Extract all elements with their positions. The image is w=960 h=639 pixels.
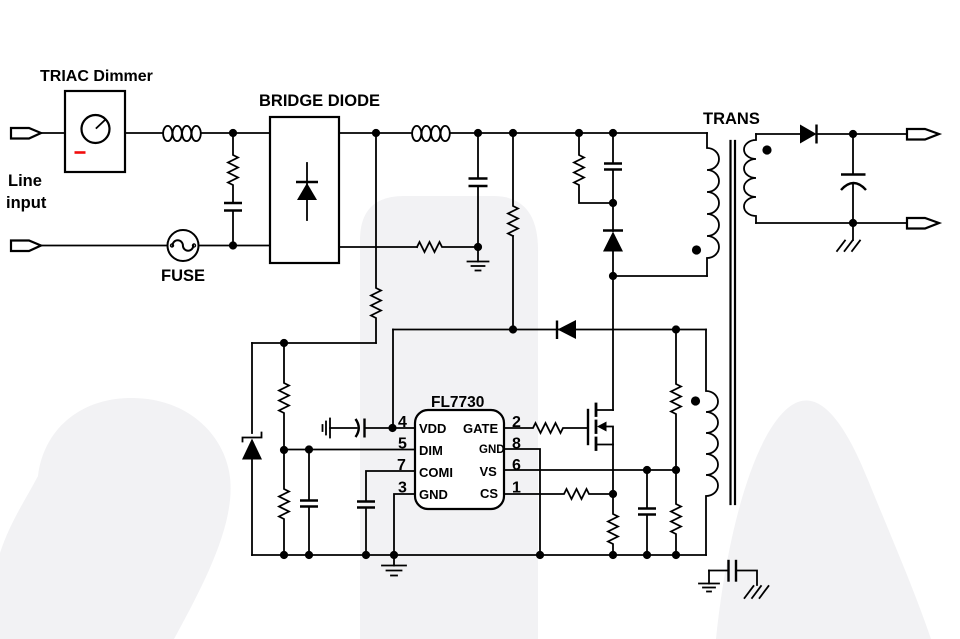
svg-text:Line: Line — [8, 172, 42, 190]
node X-cap top — [229, 129, 237, 137]
resistor source sense — [608, 494, 618, 555]
op-amp U1 FL7730 box — [415, 410, 504, 509]
node source CS — [609, 490, 617, 498]
connector output bottom — [907, 218, 939, 229]
capacitor dim — [308, 450, 310, 501]
svg-text:CS: CS — [480, 486, 498, 501]
transformer primary winding — [707, 133, 719, 276]
svg-text:FUSE: FUSE — [161, 267, 205, 285]
transformer core — [729, 141, 731, 504]
capacitor Y bridge — [699, 561, 769, 598]
svg-text:VDD: VDD — [419, 421, 446, 436]
wire primary return — [613, 275, 707, 277]
node rail vscap — [643, 551, 651, 559]
resistor aux upper — [671, 330, 681, 471]
capacitor output — [852, 134, 854, 174]
resistor startup — [371, 133, 381, 343]
connector output top — [907, 129, 939, 140]
wire diode to output — [817, 133, 908, 135]
node output plus — [849, 130, 857, 138]
wire fuse to bridge — [199, 245, 271, 247]
primary phase dot — [692, 245, 701, 254]
bridge internal diode — [306, 163, 308, 220]
svg-text:3: 3 — [398, 480, 407, 497]
node rail gnd — [390, 551, 398, 559]
node X-cap bottom — [229, 241, 237, 249]
resistor dim upper — [279, 343, 289, 450]
diode output rectifier — [800, 125, 817, 144]
transformer secondary winding — [744, 134, 756, 223]
fuse F1 — [168, 230, 199, 261]
wire startup to rail — [252, 342, 376, 344]
resistor return — [417, 242, 478, 252]
node sense R bottom — [509, 325, 517, 333]
capacitor snubber — [612, 133, 614, 163]
connector line input top — [11, 128, 41, 139]
wire triac to L1 — [125, 132, 163, 134]
inductor L2 — [412, 126, 450, 141]
svg-text:VS: VS — [480, 464, 498, 479]
capacitor comi — [357, 502, 375, 508]
node snubber mid — [609, 199, 617, 207]
node rail dimcap — [305, 551, 313, 559]
TRIAC dimmer box — [65, 91, 125, 172]
wire bottom rail — [252, 554, 706, 556]
wire vdd riser — [392, 330, 394, 429]
wire bridge out top — [339, 132, 412, 134]
wire sense R lower — [512, 236, 514, 330]
wire drain riser — [612, 276, 614, 410]
svg-text:COMI: COMI — [419, 465, 453, 480]
node dim cap — [305, 445, 313, 453]
transistor Q1 mosfet — [588, 404, 613, 494]
connector line input bottom — [11, 241, 41, 252]
svg-text:6: 6 — [512, 457, 521, 474]
node rail comi — [362, 551, 370, 559]
resistor CS — [504, 489, 613, 499]
wire L1 to bridge — [201, 132, 270, 134]
ground bus — [468, 247, 489, 271]
wire pin3 gnd — [394, 494, 415, 555]
capacitor X — [224, 203, 242, 211]
svg-text:TRANS: TRANS — [703, 110, 760, 128]
node bus cap — [474, 129, 482, 137]
node vdd — [388, 424, 396, 432]
node dim — [280, 446, 288, 454]
ground secondary chassis — [837, 223, 860, 251]
node snubber R — [575, 129, 583, 137]
dimmer knob — [82, 115, 110, 143]
ground main — [382, 555, 406, 576]
svg-text:TRIAC Dimmer: TRIAC Dimmer — [40, 68, 153, 85]
node vs cap — [643, 466, 651, 474]
wire DIM to pin5 — [284, 449, 415, 451]
zener diode — [243, 433, 262, 442]
node rail source — [609, 551, 617, 559]
wire secondary top — [756, 133, 801, 135]
node rail dim — [280, 551, 288, 559]
zener rail left — [251, 343, 253, 433]
capacitor bus — [477, 133, 479, 178]
inductor L1 — [163, 126, 201, 141]
svg-text:BRIDGE DIODE: BRIDGE DIODE — [259, 92, 380, 110]
wire COMI — [366, 471, 415, 501]
resistor aux lower — [671, 470, 681, 555]
capacitor vs — [646, 470, 648, 508]
ground vdd small — [323, 419, 331, 438]
node aux divider top — [672, 325, 680, 333]
diode snubber — [612, 203, 614, 231]
resistor snubber — [574, 133, 613, 203]
svg-text:input: input — [6, 194, 47, 212]
svg-text:5: 5 — [398, 436, 407, 453]
watermark band — [360, 196, 538, 639]
node primary return — [609, 272, 617, 280]
wire X-cap to lower line — [232, 211, 234, 246]
svg-text:FL7730: FL7730 — [431, 394, 484, 411]
aux phase dot — [691, 396, 700, 405]
svg-text:7: 7 — [397, 457, 406, 474]
wire VS pin6 — [504, 469, 676, 471]
secondary phase dot — [762, 145, 771, 154]
resistor dim lower — [279, 450, 289, 555]
wire conn to fuse — [41, 245, 168, 247]
resistor damping (X branch) — [228, 133, 238, 202]
wire secondary bottom — [756, 222, 907, 224]
capacitor vdd — [330, 427, 357, 429]
resistor sense upper — [508, 133, 518, 236]
resistor gate — [504, 423, 588, 433]
watermark lobe bottom-left — [0, 398, 231, 639]
node snubber C — [609, 129, 617, 137]
aux winding — [706, 330, 718, 556]
node output minus — [849, 219, 857, 227]
node aux divider bottom — [672, 551, 680, 559]
wire conn to triac — [41, 132, 65, 134]
wire pin8 gnd — [504, 449, 540, 555]
svg-text:8: 8 — [512, 436, 521, 453]
wire L2 to transformer — [450, 132, 707, 134]
node sense R — [509, 129, 517, 137]
bridge diode box — [270, 117, 339, 263]
wire feedback line — [393, 329, 706, 331]
svg-text:DIM: DIM — [419, 443, 443, 458]
watermark dome right — [716, 400, 931, 639]
node VS right — [672, 466, 680, 474]
node divider top — [280, 339, 288, 347]
wire bridge out bottom — [339, 246, 417, 248]
svg-text:GATE: GATE — [463, 421, 498, 436]
node rail pin8 — [536, 551, 544, 559]
svg-text:GND: GND — [479, 444, 505, 456]
node startup R top — [372, 129, 380, 137]
red dash — [75, 151, 86, 154]
diode feedback — [556, 321, 558, 340]
svg-text:4: 4 — [398, 414, 407, 431]
svg-text:GND: GND — [419, 487, 448, 502]
node return gnd — [474, 243, 482, 251]
